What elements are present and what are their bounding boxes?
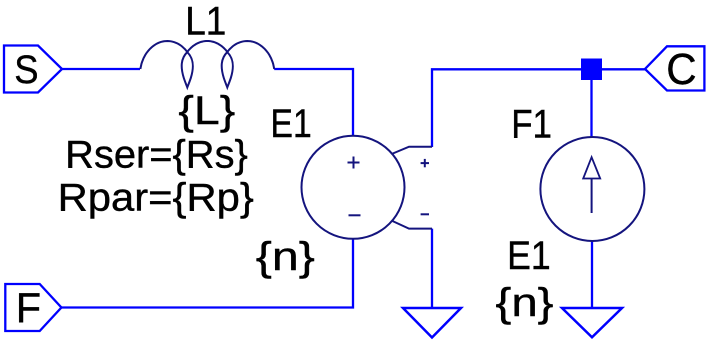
svg-text:{n}: {n} xyxy=(256,235,315,279)
svg-text:L1: L1 xyxy=(185,0,226,44)
svg-text:E1: E1 xyxy=(271,102,312,146)
svg-text:E1: E1 xyxy=(507,234,551,278)
svg-text:F: F xyxy=(16,284,41,331)
svg-text:{n}: {n} xyxy=(496,281,554,325)
svg-text:{L}: {L} xyxy=(178,89,235,133)
svg-text:Rser={Rs}: Rser={Rs} xyxy=(65,134,248,177)
svg-text:Rpar={Rp}: Rpar={Rp} xyxy=(58,177,254,220)
svg-text:C: C xyxy=(666,45,696,94)
svg-text:S: S xyxy=(14,48,38,92)
svg-text:F1: F1 xyxy=(511,103,552,147)
